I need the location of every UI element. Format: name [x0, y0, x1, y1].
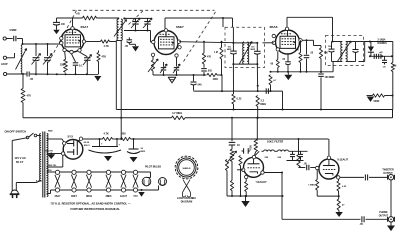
svg-text:ON-OFF SWITCH: ON-OFF SWITCH [5, 130, 27, 134]
svg-text:1 MEG: 1 MEG [308, 185, 315, 187]
svg-text:DIAGRAM: DIAGRAM [181, 201, 192, 204]
svg-text:1M: 1M [393, 66, 396, 68]
svg-text:PILOT BULBS: PILOT BULBS [145, 166, 161, 169]
svg-text:6.3 V: 6.3 V [36, 180, 42, 183]
svg-text:115 V AC: 115 V AC [15, 156, 26, 160]
svg-text:6BE6: 6BE6 [106, 196, 112, 198]
svg-text:6SA7: 6SA7 [55, 195, 61, 198]
svg-text:6SK7: 6SK7 [176, 25, 184, 29]
svg-text:470: 470 [207, 56, 212, 59]
svg-text:1 M: 1 M [214, 52, 218, 54]
svg-text:½12AU7: ½12AU7 [256, 180, 267, 184]
svg-text:4.7K: 4.7K [104, 133, 109, 136]
svg-text:470K: 470K [250, 145, 253, 151]
svg-text:450: 450 [122, 133, 127, 136]
svg-text:PHONE: PHONE [379, 212, 388, 214]
svg-text:OUTPUT: OUTPUT [379, 215, 389, 217]
svg-text:.002: .002 [207, 70, 212, 72]
svg-text:0.22: 0.22 [237, 98, 242, 101]
svg-text:6SA7: 6SA7 [81, 25, 89, 29]
svg-text:MMF: MMF [251, 49, 256, 51]
svg-text:½12AU7: ½12AU7 [337, 157, 348, 161]
svg-text:+B: +B [76, 12, 80, 16]
svg-text:10KC FILTER: 10KC FILTER [267, 140, 283, 144]
svg-text:450 V: 450 V [84, 144, 90, 147]
svg-text:NEG HV: NEG HV [45, 150, 53, 152]
svg-text:FURTHER INSTRUCTIONS IN MANUAL: FURTHER INSTRUCTIONS IN MANUAL [71, 207, 121, 211]
svg-text:330: 330 [60, 64, 65, 67]
svg-text:MFD: MFD [141, 151, 146, 153]
svg-text:LOOP: LOOP [1, 64, 8, 66]
svg-text:6 MMF: 6 MMF [10, 30, 18, 32]
svg-text:5Y3: 5Y3 [133, 196, 138, 198]
svg-text:4.7K: 4.7K [104, 45, 109, 48]
svg-text:DIODES: DIODES [378, 42, 388, 45]
svg-text:12AU7: 12AU7 [120, 195, 128, 198]
svg-text:RED-YEL: RED-YEL [48, 165, 57, 167]
svg-text:OUTPUT: OUTPUT [383, 173, 393, 175]
svg-text:6BA6: 6BA6 [86, 195, 93, 198]
svg-text:60 CY: 60 CY [16, 160, 24, 164]
svg-text:100 MMF: 100 MMF [325, 76, 336, 79]
svg-text:100K: 100K [213, 79, 219, 81]
svg-text:LOOP ANTENNA: LOOP ANTENNA [177, 197, 196, 200]
svg-text:470: 470 [27, 94, 32, 98]
svg-text:5Y3: 5Y3 [68, 135, 74, 139]
svg-text:TWEETER: TWEETER [382, 170, 394, 172]
svg-text:.05: .05 [30, 77, 34, 81]
svg-text:MEG: MEG [261, 103, 267, 106]
svg-text:GRN: GRN [47, 170, 52, 172]
svg-text:SHIELD: SHIELD [182, 168, 190, 170]
svg-text:6SK7: 6SK7 [71, 196, 77, 198]
svg-text:47K: 47K [102, 56, 107, 59]
svg-text:20-20: 20-20 [84, 142, 90, 144]
svg-text:4.7 MEG: 4.7 MEG [172, 111, 182, 115]
svg-text:*27 K.Ω. RESISTOR OPTIONAL, AS: *27 K.Ω. RESISTOR OPTIONAL, AS BAND WIDT… [51, 202, 131, 206]
svg-text:500K: 500K [374, 100, 380, 103]
svg-text:MMF: MMF [227, 49, 232, 51]
svg-text:RED: RED [48, 131, 53, 133]
svg-text:.05: .05 [125, 45, 129, 48]
svg-text:0.1: 0.1 [79, 65, 83, 68]
svg-text:6BA6: 6BA6 [270, 25, 278, 29]
svg-text:.048: .048 [197, 84, 202, 87]
